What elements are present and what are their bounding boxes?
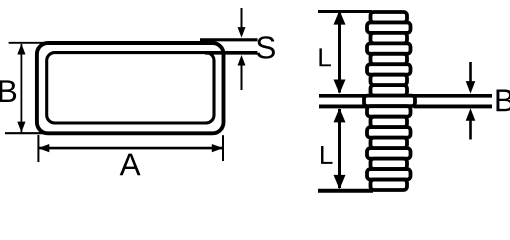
corrugation seg 12 narrow xyxy=(371,138,408,148)
dim A right extension line xyxy=(222,135,224,161)
dim S arrow down head xyxy=(238,27,246,37)
label S xyxy=(257,36,275,58)
label B right xyxy=(496,90,510,112)
panel upper surface line xyxy=(319,94,366,98)
dim B right arrow up stem xyxy=(469,120,472,140)
dim B right arrow down stem xyxy=(469,62,472,83)
dim S arrow up head xyxy=(238,55,246,66)
label L lower xyxy=(321,146,332,164)
dim S arrow down stem xyxy=(241,8,243,28)
dim L lower arrow up xyxy=(334,108,346,122)
dim B right arrow down head xyxy=(466,81,476,94)
dim A arrow left xyxy=(38,144,49,152)
corrugation seg 8 narrow xyxy=(371,85,408,95)
corrugation seg 7 narrow xyxy=(371,75,408,85)
label L upper xyxy=(319,48,330,66)
dim A left extension line xyxy=(37,135,39,162)
dim L upper arrow up xyxy=(334,10,346,24)
corrugated tube segments xyxy=(364,12,415,190)
dim B arrow down xyxy=(17,122,25,133)
dim B arrow up xyxy=(17,44,25,55)
dim S lower extension line xyxy=(205,51,258,55)
corrugation seg 16 narrow xyxy=(371,180,408,190)
corrugation seg 2 wide xyxy=(367,22,411,32)
dim S upper extension line xyxy=(200,38,258,41)
dim L upper dimension line xyxy=(338,13,341,93)
corrugation seg 9 wide xyxy=(367,106,411,116)
dim L bottom extension line xyxy=(318,189,373,193)
tube inner contour xyxy=(47,53,214,123)
dim L top extension line xyxy=(318,10,372,13)
panel lower surface line xyxy=(319,104,366,108)
corrugation seg 5 narrow xyxy=(371,54,408,64)
label B left xyxy=(0,80,16,102)
dim A dimension line xyxy=(39,147,223,150)
corrugation seg 4 wide xyxy=(367,43,411,53)
corrugation seg 14 narrow xyxy=(371,159,408,169)
corrugation seg 1 narrow xyxy=(371,12,408,22)
corrugation crossing segment wide xyxy=(364,96,415,107)
corrugation seg 15 wide xyxy=(367,169,411,179)
dim B top extension line xyxy=(9,42,48,44)
corrugation seg 13 wide xyxy=(367,148,411,158)
dim A arrow right xyxy=(212,144,223,152)
dim B dimension line xyxy=(20,44,22,132)
dim B right arrow up head xyxy=(466,108,476,121)
corrugation seg 3 narrow xyxy=(371,33,408,43)
dim L lower dimension line xyxy=(338,109,341,188)
dim S arrow up stem xyxy=(241,65,243,90)
dim L upper arrow down xyxy=(334,80,346,94)
corrugation seg 6 wide xyxy=(367,64,411,74)
corrugation seg 10 narrow xyxy=(371,117,408,127)
dim L lower arrow down xyxy=(334,175,346,189)
corrugation seg 11 wide xyxy=(367,127,411,137)
label A xyxy=(120,154,141,176)
tube outer contour xyxy=(37,43,224,133)
dim B bottom extension line xyxy=(5,132,48,134)
